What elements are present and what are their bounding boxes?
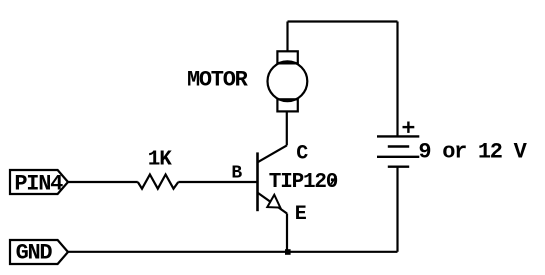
node GND flag <box>10 240 68 264</box>
wire ground bus <box>68 251 398 253</box>
wire battery negative <box>396 167 398 252</box>
label TIP120 <box>269 171 338 194</box>
wire Q1 emitter to ground bus <box>286 214 288 253</box>
motor M1 <box>268 51 308 111</box>
wire R1 to Q1 base <box>178 181 257 183</box>
wire battery positive <box>396 22 398 137</box>
resistor R1 <box>138 175 179 189</box>
svg-text:1K: 1K <box>148 149 172 172</box>
wire motor top <box>286 22 288 52</box>
svg-text:E: E <box>295 203 307 226</box>
svg-text:9 or 12 V: 9 or 12 V <box>418 140 527 165</box>
transistor Q1 TIP120 <box>258 145 288 213</box>
node PIN4 flag <box>10 170 68 194</box>
svg-text:PIN4: PIN4 <box>14 172 63 197</box>
svg-text:MOTOR: MOTOR <box>187 67 249 92</box>
wire Q1 collector to motor <box>286 111 288 145</box>
label + <box>403 122 415 133</box>
battery BT1 <box>377 136 419 166</box>
wire PIN4 to R1 <box>68 181 138 183</box>
svg-text:TIP120: TIP120 <box>269 171 338 194</box>
svg-text:B: B <box>231 164 242 184</box>
junction emitter ground <box>285 249 291 255</box>
wire top horizontal <box>288 20 398 22</box>
svg-text:GND: GND <box>16 241 53 266</box>
svg-text:C: C <box>296 143 308 166</box>
